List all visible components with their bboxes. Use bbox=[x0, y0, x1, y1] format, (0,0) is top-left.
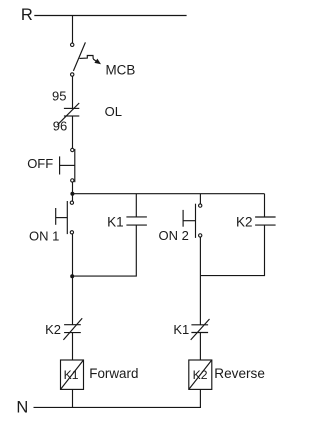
wire interlock to coil K2 bbox=[199, 333, 201, 361]
wire bottom rail N bbox=[34, 406, 202, 408]
wire MCB to OL bbox=[72, 76, 74, 108]
svg-text:95: 95 bbox=[52, 89, 66, 104]
contact K2 (NO holding) bbox=[255, 217, 276, 225]
svg-text:ON 2: ON 2 bbox=[159, 228, 189, 243]
interlock contact K1 (NC) bbox=[191, 319, 210, 340]
svg-text:ON 1: ON 1 bbox=[29, 228, 59, 243]
coil K1 bbox=[61, 360, 84, 389]
svg-text:K2: K2 bbox=[193, 368, 208, 382]
svg-text:N: N bbox=[16, 398, 28, 416]
svg-text:K1: K1 bbox=[173, 322, 189, 337]
wire ON 1 to junction B bbox=[72, 234, 74, 276]
wire junction B to interlock K2 bbox=[72, 276, 74, 325]
wire K2 contact to branch bottom bbox=[200, 225, 264, 276]
wire interlock to coil K1 bbox=[72, 333, 74, 360]
wire K1 contact drop bbox=[135, 194, 137, 217]
contact K1 (NO holding) bbox=[126, 217, 146, 225]
wire OFF to junction bbox=[72, 182, 74, 194]
pushbutton ON 1 (NO) bbox=[56, 201, 74, 234]
wire branch to interlock K1 bbox=[199, 276, 201, 325]
svg-text:Forward: Forward bbox=[89, 366, 138, 381]
svg-text:OL: OL bbox=[105, 104, 122, 119]
svg-text:96: 96 bbox=[53, 119, 67, 134]
pushbutton OFF (NC) bbox=[60, 148, 75, 182]
wire top rail R bbox=[34, 15, 186, 17]
svg-text:K2: K2 bbox=[236, 215, 253, 230]
wire ON 2 drop bbox=[199, 194, 201, 204]
wire junction to ON 1 bbox=[72, 194, 74, 201]
junction node B bbox=[70, 274, 74, 278]
wire OL to OFF bbox=[72, 116, 74, 148]
wire coil K1 to N rail bbox=[72, 389, 74, 407]
svg-text:OFF: OFF bbox=[27, 156, 53, 171]
interlock contact K2 (NC) bbox=[63, 318, 82, 340]
junction node A bbox=[70, 192, 74, 196]
svg-text:K1: K1 bbox=[107, 214, 124, 229]
svg-text:K2: K2 bbox=[45, 322, 61, 337]
svg-text:MCB: MCB bbox=[106, 63, 136, 78]
overload relay contact OL bbox=[58, 103, 80, 125]
coil K2 bbox=[189, 360, 212, 389]
wire coil K2 to N rail bbox=[199, 389, 201, 407]
wire K1 contact to branch bottom bbox=[72, 225, 136, 276]
svg-text:K1: K1 bbox=[64, 368, 79, 382]
wire ON 2 to branch bottom bbox=[199, 237, 201, 276]
svg-text:Reverse: Reverse bbox=[214, 366, 265, 381]
circuit breaker MCB bbox=[71, 42, 102, 76]
wire top branch rail bbox=[72, 193, 265, 195]
wire rail to MCB bbox=[72, 16, 74, 44]
pushbutton ON 2 (NO) bbox=[183, 204, 202, 238]
wire K2 contact drop bbox=[264, 194, 266, 217]
svg-text:R: R bbox=[21, 6, 33, 24]
